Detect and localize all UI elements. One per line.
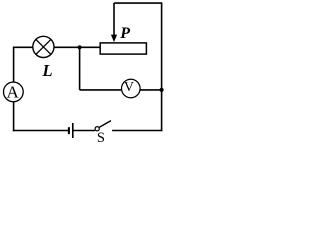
wire: switch to bottom-right corner — [112, 130, 162, 132]
wire: top-left horizontal from left corner to lamp — [14, 46, 33, 48]
svg-text:S: S — [97, 130, 105, 146]
node junction dot on right vertical — [160, 88, 164, 92]
svg-text:V: V — [124, 80, 134, 95]
rheostat P (resistor box) — [100, 43, 146, 54]
rheostat wiper arrowhead — [111, 35, 117, 43]
wire: lamp right to rheostat left terminal — [54, 46, 100, 48]
battery cell: long thin plate — [72, 123, 74, 138]
wire: top horizontal from wiper to right vertical — [114, 2, 162, 4]
wire: bottom horizontal left segment to battery — [13, 130, 68, 132]
svg-text:L: L — [42, 61, 53, 80]
switch S pivot circle — [95, 127, 99, 131]
svg-text:P: P — [119, 25, 130, 42]
wire: right vertical from top down to bottom wire — [161, 3, 163, 131]
wire: ammeter bottom to bottom-left corner — [13, 102, 15, 132]
wire: voltmeter right to right vertical — [140, 89, 163, 91]
ammeter (circle A) — [4, 82, 24, 102]
wire: junction down to voltmeter row — [79, 47, 81, 90]
node junction dot on lamp-rheostat wire — [78, 45, 82, 49]
switch S blade (open) — [99, 121, 111, 128]
svg-text:A: A — [7, 83, 20, 102]
wire: horizontal to voltmeter left — [80, 89, 122, 91]
rheostat wiper arrow stem — [113, 3, 115, 35]
voltmeter (circle V) — [122, 79, 141, 98]
lamp L (circle with X) — [33, 36, 54, 57]
wire: battery to switch pivot — [73, 130, 95, 132]
battery cell: short thick plate — [68, 127, 70, 134]
wire: left vertical from corner down to ammeter top — [13, 47, 15, 83]
